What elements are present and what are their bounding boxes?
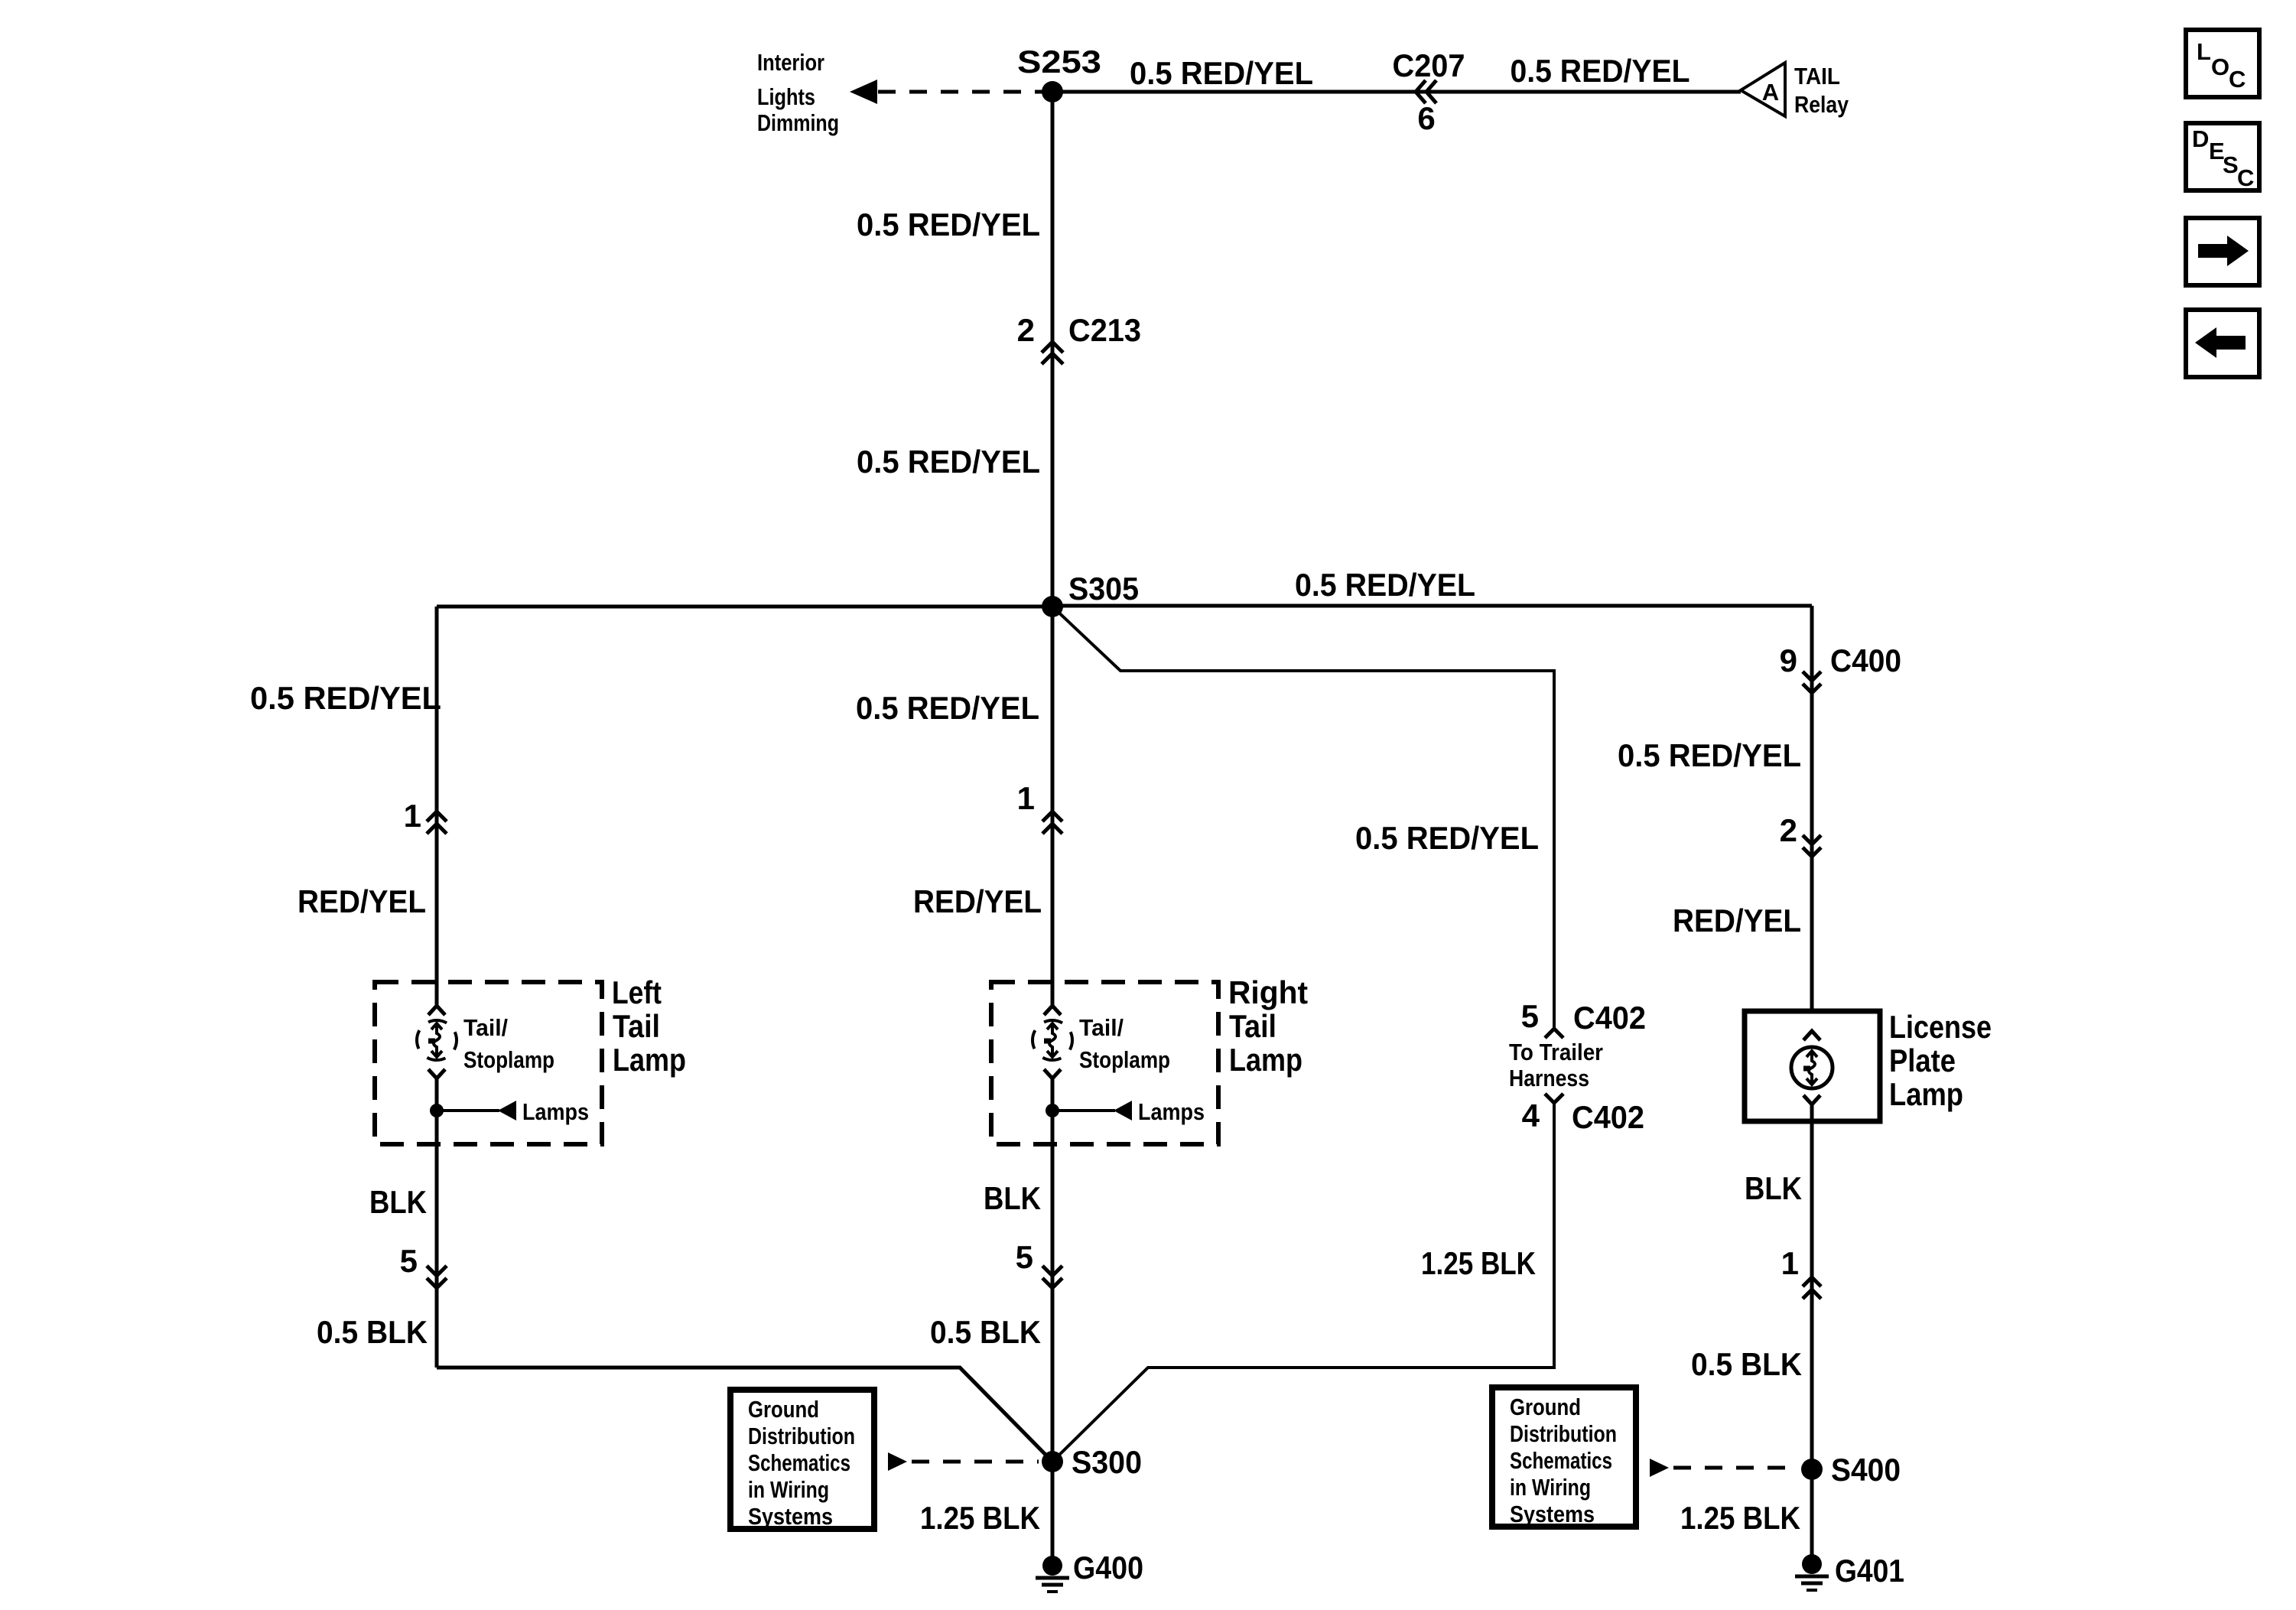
svg-text:Tail: Tail bbox=[1229, 1008, 1276, 1044]
wire S253 down to S305 bbox=[1051, 92, 1055, 607]
connector chevron into left lamp bbox=[428, 1006, 445, 1015]
svg-text:BLK: BLK bbox=[1745, 1170, 1802, 1206]
svg-text:S300: S300 bbox=[1072, 1444, 1142, 1480]
connector chevron out of left lamp bbox=[428, 1069, 445, 1078]
svg-text:BLK: BLK bbox=[369, 1184, 427, 1220]
svg-text:0.5 RED/YEL: 0.5 RED/YEL bbox=[250, 680, 441, 716]
junction dot left lamps feed bbox=[430, 1104, 444, 1117]
svg-text:5: 5 bbox=[400, 1243, 418, 1279]
svg-text:TAIL: TAIL bbox=[1794, 63, 1840, 89]
svg-text:Lamp: Lamp bbox=[613, 1042, 686, 1078]
svg-text:Interior: Interior bbox=[757, 49, 824, 76]
svg-text:Ground: Ground bbox=[1510, 1394, 1581, 1420]
svg-text:RED/YEL: RED/YEL bbox=[1673, 903, 1801, 938]
label TAIL Relay bbox=[1794, 63, 1849, 118]
svg-text:RED/YEL: RED/YEL bbox=[913, 883, 1042, 919]
svg-text:O: O bbox=[2211, 54, 2229, 80]
arrowhead to Interior Lights Dimming bbox=[850, 80, 877, 104]
label Left Tail Lamp bbox=[612, 974, 686, 1078]
splice S305 bbox=[1042, 596, 1063, 617]
svg-text:Stoplamp: Stoplamp bbox=[1079, 1046, 1170, 1073]
ground G400 bbox=[1036, 1556, 1069, 1592]
lamp L tail/stoplamp dashed bulb bbox=[417, 1020, 457, 1060]
license plate lamp box bbox=[1745, 1011, 1880, 1121]
svg-text:S: S bbox=[2223, 151, 2239, 178]
label Tail/ Stoplamp (left) bbox=[463, 1014, 554, 1073]
dashed arrow to S400 bbox=[1650, 1459, 1799, 1477]
svg-text:D: D bbox=[2192, 125, 2209, 152]
svg-text:S253: S253 bbox=[1017, 44, 1101, 80]
wire to right Lamps arrow bbox=[1052, 1109, 1115, 1112]
svg-text:2: 2 bbox=[1017, 312, 1035, 348]
svg-text:9: 9 bbox=[1780, 642, 1797, 678]
svg-text:Ground: Ground bbox=[748, 1396, 819, 1423]
wire bottom left horizontal bbox=[437, 1368, 1052, 1462]
svg-text:1.25 BLK: 1.25 BLK bbox=[1421, 1245, 1536, 1281]
svg-text:G401: G401 bbox=[1835, 1553, 1904, 1589]
splice S300 bbox=[1042, 1451, 1063, 1472]
svg-text:5: 5 bbox=[1016, 1239, 1033, 1275]
label License Plate Lamp bbox=[1889, 1009, 1992, 1112]
svg-text:2: 2 bbox=[1780, 812, 1797, 848]
lamp R filament bbox=[1044, 1023, 1058, 1057]
svg-text:C207: C207 bbox=[1393, 47, 1465, 83]
wire inside right lamp box down to S300 bbox=[1051, 1078, 1055, 1566]
wire license lamp down to G401 bbox=[1810, 1104, 1814, 1564]
svg-text:Tail/: Tail/ bbox=[1079, 1014, 1124, 1041]
label Right Tail Lamp bbox=[1228, 974, 1308, 1078]
wire S305 left to left tail lamp branch bbox=[437, 605, 1052, 609]
svg-text:Tail: Tail bbox=[613, 1008, 660, 1044]
svg-text:S305: S305 bbox=[1068, 571, 1139, 607]
svg-text:1: 1 bbox=[1781, 1245, 1799, 1281]
svg-text:C: C bbox=[2237, 164, 2254, 191]
connector chevron into license lamp bbox=[1803, 1031, 1820, 1040]
svg-text:Lamp: Lamp bbox=[1229, 1042, 1302, 1078]
svg-text:in Wiring: in Wiring bbox=[1510, 1474, 1591, 1501]
svg-text:Stoplamp: Stoplamp bbox=[463, 1046, 554, 1073]
dashed arrow to S300 bbox=[888, 1452, 1039, 1471]
connector C213 symbol bbox=[1042, 342, 1063, 364]
svg-text:C400: C400 bbox=[1830, 642, 1901, 678]
svg-text:Right: Right bbox=[1228, 974, 1308, 1010]
connector chevron out of right lamp bbox=[1044, 1069, 1061, 1078]
lamp license filament bbox=[1803, 1051, 1817, 1085]
svg-text:C402: C402 bbox=[1572, 1099, 1644, 1135]
connector symbol at right pin 5 bbox=[1042, 1266, 1062, 1288]
connector C402 lower chevron bbox=[1545, 1094, 1563, 1103]
arrowhead Lamps right bbox=[1114, 1101, 1132, 1120]
svg-text:4: 4 bbox=[1522, 1098, 1540, 1134]
svg-text:G400: G400 bbox=[1073, 1550, 1143, 1586]
ground distribution note box (right) bbox=[1492, 1387, 1636, 1527]
svg-text:BLK: BLK bbox=[984, 1180, 1041, 1216]
svg-text:L: L bbox=[2197, 38, 2211, 65]
connector C400 symbol bbox=[1803, 672, 1821, 693]
wire right branch C400 down to license lamp bbox=[1810, 606, 1814, 1031]
connector chevron into right lamp bbox=[1044, 1006, 1061, 1015]
wire S305 diagonal to trailer branch bbox=[1052, 607, 1554, 1029]
wire middle branch S305 down bbox=[1051, 607, 1055, 1005]
svg-text:Lights: Lights bbox=[757, 83, 815, 110]
svg-text:1: 1 bbox=[1017, 780, 1035, 816]
connector symbol at left pin 1 bbox=[427, 812, 447, 834]
svg-text:Schematics: Schematics bbox=[1510, 1447, 1612, 1474]
TAIL relay triangle pin A bbox=[1741, 63, 1785, 116]
arrowhead Lamps left bbox=[498, 1101, 516, 1120]
svg-text:0.5 BLK: 0.5 BLK bbox=[1691, 1346, 1802, 1382]
wire to left Lamps arrow bbox=[437, 1109, 499, 1112]
svg-text:0.5 RED/YEL: 0.5 RED/YEL bbox=[1355, 820, 1539, 856]
svg-text:0.5 RED/YEL: 0.5 RED/YEL bbox=[1618, 737, 1801, 773]
svg-text:1: 1 bbox=[404, 798, 421, 834]
svg-text:Distribution: Distribution bbox=[1510, 1420, 1617, 1447]
splice S400 bbox=[1801, 1459, 1823, 1480]
nav box LOC bbox=[2186, 30, 2259, 97]
svg-text:Lamps: Lamps bbox=[1138, 1098, 1205, 1125]
svg-text:0.5 RED/YEL: 0.5 RED/YEL bbox=[1295, 567, 1475, 603]
svg-text:Left: Left bbox=[612, 974, 662, 1010]
svg-text:in Wiring: in Wiring bbox=[748, 1476, 829, 1503]
splice S253 bbox=[1042, 81, 1063, 102]
nav box left arrow bbox=[2186, 310, 2259, 377]
svg-text:Distribution: Distribution bbox=[748, 1423, 855, 1449]
svg-text:Schematics: Schematics bbox=[748, 1449, 850, 1476]
svg-text:Harness: Harness bbox=[1509, 1065, 1589, 1091]
lamp R tail/stoplamp dashed bulb bbox=[1033, 1020, 1072, 1060]
svg-text:C213: C213 bbox=[1068, 312, 1141, 348]
right tail lamp dashed box bbox=[991, 982, 1218, 1144]
ground G401 bbox=[1795, 1554, 1829, 1590]
svg-text:1.25 BLK: 1.25 BLK bbox=[1680, 1500, 1800, 1536]
connector chevron out of license lamp bbox=[1803, 1095, 1820, 1104]
lamp L filament bbox=[428, 1023, 442, 1057]
svg-text:5: 5 bbox=[1521, 998, 1539, 1034]
svg-text:1.25 BLK: 1.25 BLK bbox=[920, 1500, 1040, 1536]
wire inside left lamp box bbox=[435, 1078, 439, 1368]
svg-text:Relay: Relay bbox=[1794, 91, 1849, 118]
connector symbol at right pin 1 bbox=[1042, 812, 1062, 834]
wire S305 right to C400 (0.5 RED/YEL) bbox=[1052, 604, 1812, 608]
svg-text:Lamp: Lamp bbox=[1889, 1076, 1963, 1112]
connector symbol at left pin 5 bbox=[427, 1266, 447, 1288]
svg-text:0.5 RED/YEL: 0.5 RED/YEL bbox=[856, 690, 1039, 726]
svg-text:To Trailer: To Trailer bbox=[1509, 1039, 1603, 1065]
svg-text:0.5 RED/YEL: 0.5 RED/YEL bbox=[857, 207, 1040, 242]
connector C402 upper chevron bbox=[1545, 1029, 1563, 1038]
svg-text:License: License bbox=[1889, 1009, 1992, 1045]
connector symbol license pin 1 bbox=[1803, 1277, 1821, 1299]
svg-text:Lamps: Lamps bbox=[522, 1098, 589, 1125]
svg-text:0.5 RED/YEL: 0.5 RED/YEL bbox=[1130, 55, 1313, 91]
svg-text:6: 6 bbox=[1417, 100, 1435, 136]
wire left branch vertical bbox=[435, 607, 439, 1005]
label Tail/ Stoplamp (right) bbox=[1079, 1014, 1170, 1073]
svg-text:0.5 BLK: 0.5 BLK bbox=[317, 1314, 428, 1350]
wire dashed to Interior Lights Dimming bbox=[878, 90, 1046, 94]
junction dot right lamps feed bbox=[1046, 1104, 1059, 1117]
svg-text:A: A bbox=[1762, 79, 1779, 106]
svg-text:Systems: Systems bbox=[1510, 1501, 1595, 1527]
svg-text:C402: C402 bbox=[1573, 1000, 1646, 1036]
label Interior Lights Dimming bbox=[757, 49, 839, 136]
nav box right arrow bbox=[2186, 218, 2259, 285]
lamp license plate bulb bbox=[1791, 1047, 1833, 1088]
svg-text:S400: S400 bbox=[1831, 1452, 1901, 1488]
connector symbol pin 2 bbox=[1803, 835, 1821, 857]
svg-text:0.5 RED/YEL: 0.5 RED/YEL bbox=[1511, 53, 1690, 89]
svg-text:Tail/: Tail/ bbox=[463, 1014, 508, 1041]
ground distribution note box (left) bbox=[730, 1390, 874, 1530]
svg-text:C: C bbox=[2229, 66, 2246, 93]
svg-text:RED/YEL: RED/YEL bbox=[298, 883, 426, 919]
label To Trailer Harness bbox=[1509, 1039, 1603, 1091]
svg-text:Dimming: Dimming bbox=[757, 109, 839, 136]
svg-text:Plate: Plate bbox=[1889, 1042, 1956, 1078]
left tail lamp dashed box bbox=[375, 982, 602, 1144]
svg-text:0.5 RED/YEL: 0.5 RED/YEL bbox=[857, 444, 1040, 480]
wire trailer branch down to S300 bbox=[1052, 1103, 1554, 1462]
connector C207 symbol bbox=[1416, 80, 1436, 103]
wire S253 to TAIL relay (0.5 RED/YEL horizontal) bbox=[1052, 90, 1741, 94]
svg-text:0.5 BLK: 0.5 BLK bbox=[930, 1314, 1041, 1350]
svg-text:Systems: Systems bbox=[748, 1503, 833, 1530]
nav box DESC bbox=[2186, 123, 2259, 191]
